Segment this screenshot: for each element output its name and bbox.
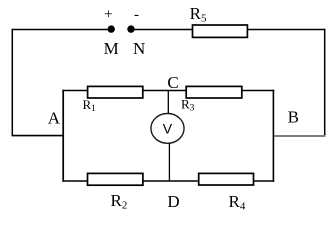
svg-text:C: C xyxy=(167,73,178,92)
wire bottom branch: R4 to bridge-right xyxy=(254,180,275,182)
wire top branch: R1 to R3 through node C xyxy=(143,90,186,92)
resistor R4 xyxy=(199,173,254,185)
resistor R3 xyxy=(186,86,242,98)
wire top branch: R3 to bridge-right xyxy=(242,90,274,92)
wire bottom branch: R2 to R4 through node D xyxy=(143,180,199,182)
wire node B horizontal (gray) xyxy=(273,135,326,137)
voltmeter V xyxy=(151,113,184,143)
svg-text:D: D xyxy=(167,192,179,211)
resistor R1 xyxy=(88,86,143,98)
svg-text:B: B xyxy=(288,108,299,127)
wire R5 to outer right vertical xyxy=(247,29,325,31)
svg-text:A: A xyxy=(48,109,61,128)
resistor R2 xyxy=(88,173,143,185)
svg-text:V: V xyxy=(163,121,173,137)
terminal N (battery - post) xyxy=(127,25,134,32)
wire node C vertical to voltmeter xyxy=(167,91,169,114)
wire bridge left vertical xyxy=(62,90,64,182)
wire bottom branch: bridge-left to R2 xyxy=(62,180,87,182)
svg-text:+: + xyxy=(104,7,112,23)
svg-text:N: N xyxy=(133,39,145,58)
wire node A horizontal xyxy=(12,135,64,137)
resistor R5 xyxy=(193,25,248,37)
svg-text:-: - xyxy=(134,7,139,23)
wire top branch: bridge-left to R1 xyxy=(62,90,87,92)
wire outer left vertical xyxy=(11,29,13,136)
wire terminal N to R5 xyxy=(134,29,193,31)
svg-text:M: M xyxy=(104,39,119,58)
terminal M (battery + post) xyxy=(108,25,115,32)
wire top-left horizontal to terminal M xyxy=(12,29,108,31)
wire bridge right vertical xyxy=(272,90,274,182)
wire voltmeter to node D vertical xyxy=(168,143,170,181)
wire outer right vertical xyxy=(324,29,326,137)
